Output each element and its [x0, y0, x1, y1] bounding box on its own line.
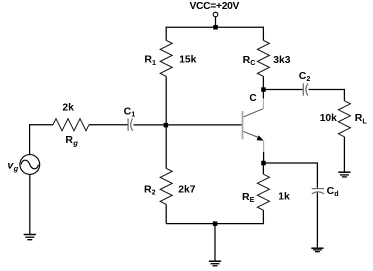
junction VCC node: [213, 25, 218, 30]
resistor R1: [160, 40, 172, 76]
capacitor C1: [128, 119, 133, 131]
wire left column top: [30, 125, 53, 155]
label 2k: [62, 102, 74, 113]
svg-text:C: C: [250, 58, 255, 67]
svg-text:3k3: 3k3: [273, 55, 290, 66]
junction collector node: [261, 87, 266, 92]
label C1: [124, 106, 136, 119]
label RL: [355, 112, 368, 125]
resistor RE: [257, 174, 269, 210]
voltage source vg: [20, 155, 40, 175]
label 1k: [278, 191, 290, 202]
svg-text:d: d: [334, 189, 338, 198]
resistor Rg: [53, 119, 89, 131]
wire top rail: [166, 26, 263, 28]
vcc terminal: [213, 12, 218, 17]
svg-text:10k: 10k: [320, 113, 337, 124]
wire RE bottom pigtail: [262, 210, 264, 224]
label VCC=+20V: [189, 1, 239, 12]
junction emitter node: [261, 161, 266, 166]
label 10k: [320, 113, 337, 124]
wire vcc stub: [215, 17, 217, 27]
resistor RC: [257, 40, 269, 76]
svg-text:15k: 15k: [179, 55, 196, 66]
wire R2 bottom pigtail: [165, 204, 167, 223]
svg-text:g: g: [13, 164, 19, 173]
wire vg to ground: [29, 174, 31, 234]
svg-text:1: 1: [131, 109, 135, 118]
capacitor C2: [303, 83, 308, 95]
label Cd: [327, 185, 339, 198]
wire C2 to RL column: [309, 90, 345, 101]
wire emitter node to RE: [262, 163, 264, 174]
svg-text:L: L: [362, 116, 367, 125]
wire collector row to C2: [263, 89, 302, 91]
svg-text:g: g: [72, 139, 78, 148]
svg-text:2k: 2k: [62, 102, 74, 113]
label 2k7: [178, 185, 195, 196]
transistor Q1 collector branch: [243, 89, 263, 117]
wire Cd to ground: [316, 193, 318, 249]
label C2: [299, 70, 311, 83]
transistor Q1 emitter branch with arrow: [243, 131, 263, 163]
resistor RL: [338, 101, 350, 137]
label 15k: [179, 55, 196, 66]
ground under RL: [338, 172, 350, 177]
svg-text:1k: 1k: [278, 191, 290, 202]
wire emitter row to Cd: [263, 163, 317, 188]
junction bottom node: [213, 221, 218, 226]
wire RC bottom pigtail: [262, 76, 264, 89]
svg-text:2: 2: [152, 188, 156, 197]
transistor Q1 base bar: [242, 111, 244, 139]
wire bottom row: [166, 223, 263, 225]
ground bottom middle: [209, 261, 221, 266]
label 3k3: [273, 55, 290, 66]
wire Rg to C1: [89, 124, 128, 126]
label C collector: [249, 93, 256, 104]
svg-text:2k7: 2k7: [178, 185, 195, 196]
wire RL bottom pigtail: [343, 137, 345, 172]
svg-text:C: C: [249, 93, 256, 104]
ground under Cd: [311, 248, 323, 252]
junction base node: [164, 123, 169, 128]
label R2: [144, 183, 156, 196]
label R1: [144, 54, 156, 67]
label RC: [243, 54, 256, 67]
svg-text:1: 1: [152, 58, 156, 67]
label vg: [7, 159, 18, 173]
svg-text:E: E: [250, 195, 255, 204]
wire bottom node to ground: [214, 224, 216, 262]
wire R1 top pigtail: [165, 27, 167, 41]
svg-text:2: 2: [306, 74, 310, 83]
resistor R2: [160, 168, 172, 204]
wire C1 to base node: [133, 124, 241, 126]
ground under vg: [24, 235, 36, 240]
wire base node to R2: [165, 125, 167, 168]
svg-text:VCC=+20V: VCC=+20V: [189, 1, 239, 12]
wire R1 bottom pigtail: [165, 76, 167, 125]
wire RC top pigtail: [262, 27, 264, 41]
label RE: [242, 191, 255, 204]
label Rg: [65, 134, 78, 148]
svg-text:R: R: [65, 134, 73, 146]
capacitor Cd: [312, 189, 324, 194]
